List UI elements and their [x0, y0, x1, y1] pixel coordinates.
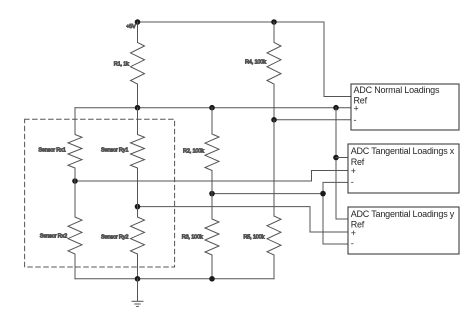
resistor Sensor Ry1 — [131, 108, 145, 207]
wire Ry midpoint row to ADC Tangential y plus — [138, 207, 349, 232]
svg-text:ADC Tangential Loadings x: ADC Tangential Loadings x — [351, 146, 455, 156]
node R1 bottom bridge top — [135, 105, 141, 111]
node R4 bottom — [271, 117, 277, 123]
node R3 bottom — [209, 276, 215, 282]
svg-text:R1, 1k: R1, 1k — [114, 62, 129, 68]
node +5V at R1 top — [135, 19, 141, 25]
node Rx sensors midpoint — [72, 178, 78, 184]
wire to ADC Tangential x Ref — [336, 157, 348, 159]
svg-text:R4, 100k: R4, 100k — [245, 59, 266, 65]
svg-text:+: + — [351, 166, 356, 176]
ADC Normal Loadings box U1 — [351, 84, 459, 130]
svg-text:ADC Tangential Loadings y: ADC Tangential Loadings y — [351, 209, 455, 219]
ADC Tangential Loadings x box U2 — [348, 144, 459, 193]
wire bottom rail — [75, 278, 274, 280]
svg-text:Sensor Rx2: Sensor Rx2 — [40, 233, 67, 239]
wire bridge top row to ADC Normal + — [75, 107, 351, 109]
ground — [132, 279, 143, 307]
svg-text:R5, 100k: R5, 100k — [243, 234, 264, 240]
resistor Sensor Rx1 — [68, 108, 82, 181]
resistor R4 — [267, 22, 281, 120]
wire +5V rail — [138, 21, 325, 23]
node R2 top — [209, 105, 215, 111]
node Ry sensors midpoint — [135, 204, 141, 210]
svg-text:-: - — [351, 177, 354, 187]
ADC Tangential Loadings y box U3 — [348, 207, 459, 254]
svg-text:R2, 100k: R2, 100k — [183, 148, 204, 154]
svg-text:Sensor Ry2: Sensor Ry2 — [101, 234, 128, 240]
svg-text:ADC Normal Loadings: ADC Normal Loadings — [354, 85, 440, 95]
wire +5V rail drop to ADC Normal Ref — [324, 22, 351, 97]
resistor R3 — [205, 194, 219, 279]
resistor Sensor Ry2 — [131, 207, 145, 279]
resistor R2 — [205, 108, 219, 194]
resistor Sensor Rx2 — [68, 181, 82, 279]
svg-text:-: - — [351, 238, 354, 248]
wire R4 bottom to ADC Normal minus — [274, 119, 351, 121]
node R4 top — [271, 19, 277, 25]
svg-text:+: + — [351, 228, 356, 238]
resistor R1 — [131, 22, 145, 108]
node minus branch junction — [320, 191, 326, 197]
svg-text:+5V: +5V — [126, 24, 136, 30]
svg-text:Sensor Rx1: Sensor Rx1 — [38, 148, 65, 154]
svg-text:R3, 100k: R3, 100k — [182, 235, 203, 241]
node ref branch tap — [333, 105, 339, 111]
svg-text:Sensor Ry1: Sensor Ry1 — [101, 148, 128, 154]
svg-text:-: - — [354, 115, 357, 125]
node R2 R3 junction — [209, 191, 215, 197]
resistor R5 — [267, 120, 281, 279]
dashed sensor boundary box — [25, 119, 175, 267]
wire Rx midpoint row to ADC Tangential x plus — [75, 171, 348, 182]
svg-text:+: + — [354, 104, 359, 114]
wire ref branch down to ADC Tangential y Ref — [336, 108, 348, 219]
node ADC Tangential x Ref tap — [333, 155, 339, 161]
wire R2 R3 junction row — [212, 193, 323, 195]
node Ry2 bottom at ground — [135, 276, 141, 282]
wire minus branch to ADC Tangential x minus and y minus — [323, 182, 348, 244]
